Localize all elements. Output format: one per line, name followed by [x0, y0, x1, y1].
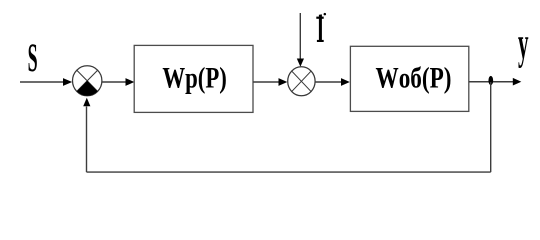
arrowhead f into summing junction 2 [297, 59, 304, 67]
arrowhead into block Wp [126, 78, 135, 86]
wire feedback left vertical [86, 107, 88, 173]
arrowhead feedback into summing junction 1 [83, 98, 90, 107]
arrowhead into summing junction 1 [63, 78, 72, 86]
arrowhead output y [513, 78, 522, 86]
svg-text:Wоб(P): Wоб(P) [376, 61, 452, 94]
svg-text:y: y [518, 18, 529, 69]
block Wp(P) (controller) [134, 45, 253, 112]
wire disturbance f [299, 13, 301, 60]
wire summing junction 2 to block Wob [315, 81, 342, 83]
node junction (feedback takeoff dot) [488, 76, 493, 85]
wire block Wp to summing junction 2 [253, 81, 280, 83]
wire feedback right vertical [490, 82, 492, 172]
summing junction 2 (disturbance adder) [288, 67, 315, 96]
node f (disturbance label) [316, 13, 326, 42]
summing junction 1 (comparator with negative feedback sector) [73, 66, 102, 96]
arrowhead into block Wob [341, 78, 350, 86]
wire block Wob to output [469, 81, 514, 83]
svg-text:Wp(P): Wp(P) [162, 61, 227, 94]
block Wob(P) (plant) [350, 46, 468, 111]
wire summing junction 1 to block Wp [102, 81, 127, 83]
wire feedback bottom horizontal [87, 171, 491, 173]
svg-text:S: S [28, 35, 38, 80]
arrowhead into summing junction 2 [279, 78, 288, 86]
wire input S [20, 81, 65, 83]
